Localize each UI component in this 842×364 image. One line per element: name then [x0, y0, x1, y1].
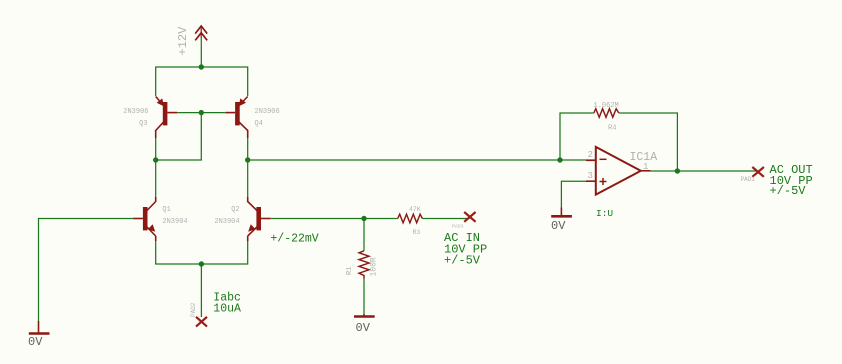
- svg-text:10uA: 10uA: [213, 303, 241, 316]
- transistor Q4 (PNP 2N3906): [225, 97, 247, 139]
- wire Q1 base to ground: [39, 219, 134, 322]
- svg-text:+/-5V: +/-5V: [444, 254, 481, 268]
- ground mid 0V: [354, 314, 375, 317]
- op-amp U1 IC1A: [586, 147, 651, 195]
- junction input node: [361, 216, 366, 221]
- svg-text:IC1A: IC1A: [630, 151, 658, 164]
- junction emitters: [199, 261, 204, 266]
- wire diode connect: [156, 113, 202, 160]
- resistor R3 47K: [364, 214, 468, 223]
- svg-text:0V: 0V: [356, 321, 371, 335]
- svg-text:+12V: +12V: [176, 26, 190, 56]
- wire feedback right: [619, 113, 678, 171]
- svg-text:0V: 0V: [551, 219, 566, 233]
- pad PAD2: [196, 317, 207, 327]
- wire left collector: [155, 138, 157, 197]
- junction base tie: [199, 110, 204, 115]
- svg-text:Q3: Q3: [139, 120, 147, 128]
- svg-text:+/-5V: +/-5V: [770, 184, 807, 198]
- resistor R1 100R: [359, 219, 369, 315]
- supply +12V symbol: [195, 26, 207, 40]
- junction inverting input: [557, 157, 562, 162]
- svg-text:2N3906: 2N3906: [255, 108, 280, 116]
- svg-text:Q4: Q4: [255, 120, 263, 128]
- transistor Q3 (PNP 2N3906): [156, 97, 178, 139]
- junction output: [675, 168, 680, 173]
- svg-text:1.062M: 1.062M: [594, 102, 619, 110]
- transistor Q2 (NPN 2N3904): [248, 197, 271, 241]
- svg-text:47K: 47K: [409, 206, 421, 213]
- pad PAD3: [464, 212, 475, 222]
- svg-text:I:U: I:U: [596, 208, 613, 219]
- svg-text:PAD2: PAD2: [190, 302, 197, 317]
- wire Q2 base to node: [271, 218, 364, 220]
- pad PAD1: [752, 167, 764, 177]
- svg-text:2: 2: [588, 150, 593, 160]
- wire right collector: [247, 138, 249, 197]
- junction right collector: [245, 157, 250, 162]
- svg-text:R1: R1: [346, 267, 354, 275]
- svg-text:PAD1: PAD1: [741, 176, 756, 183]
- transistor Q1 (NPN 2N3904): [133, 197, 156, 241]
- wire top rail: [156, 67, 248, 96]
- svg-text:2N3906: 2N3906: [123, 108, 148, 116]
- svg-text:2N3904: 2N3904: [214, 218, 239, 226]
- wire to op-amp: [248, 159, 596, 161]
- svg-text:R3: R3: [413, 229, 421, 236]
- wire tail current: [200, 264, 202, 317]
- wire output: [651, 170, 758, 172]
- svg-text:0V: 0V: [28, 335, 43, 349]
- junction left collector: [153, 157, 158, 162]
- svg-text:R4: R4: [608, 125, 616, 133]
- svg-text:2N3904: 2N3904: [162, 218, 187, 226]
- svg-text:+/-22mV: +/-22mV: [270, 232, 318, 245]
- svg-text:100R: 100R: [370, 257, 379, 276]
- wire emitters join: [156, 241, 248, 264]
- wire feedback left: [560, 113, 594, 160]
- svg-text:Q1: Q1: [162, 206, 170, 214]
- ground opamp 0V: [551, 208, 572, 217]
- svg-text:PAD3: PAD3: [452, 223, 464, 229]
- wire supply stub: [200, 38, 202, 67]
- ground left 0V: [29, 321, 50, 334]
- wire noninverting to ground: [561, 181, 586, 207]
- resistor R4 1.062M: [594, 109, 619, 118]
- junction top rail: [199, 64, 204, 69]
- wire base tie: [177, 112, 225, 114]
- svg-text:3: 3: [588, 171, 593, 181]
- svg-text:Q2: Q2: [231, 206, 239, 214]
